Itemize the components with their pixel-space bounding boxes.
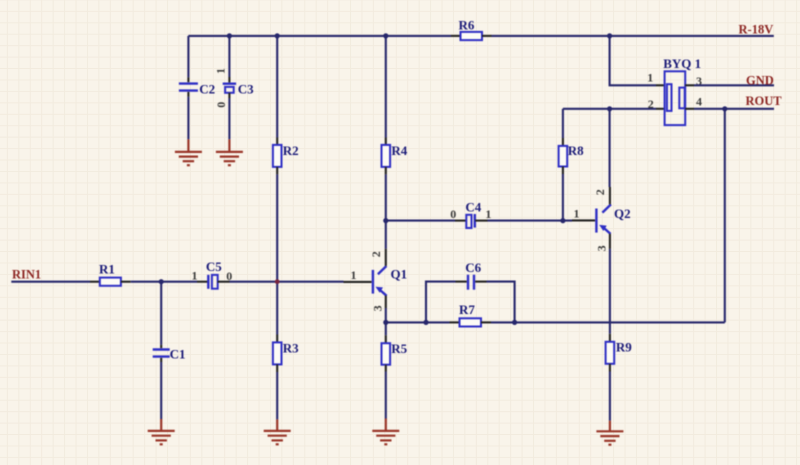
resistor R8 bbox=[559, 138, 584, 174]
node on rail at R2 bbox=[275, 33, 280, 38]
ground under R3 bbox=[264, 419, 291, 444]
wire GND net bbox=[694, 84, 774, 86]
svg-text:2: 2 bbox=[593, 189, 607, 195]
ground under R5 bbox=[372, 419, 399, 445]
svg-text:Q1: Q1 bbox=[391, 267, 408, 282]
capacitor C4 (polarized) bbox=[450, 199, 491, 228]
wire pin2 row bbox=[563, 108, 656, 110]
svg-text:R4: R4 bbox=[391, 143, 407, 158]
transistor Q2 bbox=[572, 187, 631, 251]
transistor Q1 bbox=[344, 249, 408, 312]
capacitor C6 bbox=[456, 260, 487, 290]
wire R8 to C4 row bbox=[562, 174, 564, 221]
wire R3 to ground bbox=[276, 372, 278, 419]
wire C4 to Q2 base bbox=[488, 220, 573, 222]
svg-text:C1: C1 bbox=[170, 347, 186, 362]
node C6 right bbox=[512, 320, 517, 325]
svg-text:2: 2 bbox=[369, 251, 383, 257]
wire Q2 collector up bbox=[609, 109, 611, 187]
wire R2/R3 mid bbox=[276, 282, 278, 335]
svg-text:0: 0 bbox=[214, 102, 228, 108]
wire top rail left of R6 bbox=[188, 35, 451, 37]
svg-text:C4: C4 bbox=[465, 199, 481, 214]
capacitor C2 bbox=[179, 77, 215, 96]
wire C2 drop bbox=[187, 36, 189, 78]
resistor R4 bbox=[382, 138, 408, 175]
svg-text:2: 2 bbox=[648, 97, 654, 111]
wire R2 to input line bbox=[276, 174, 278, 281]
node on rail at BYQ drop bbox=[607, 33, 612, 38]
svg-text:R8: R8 bbox=[568, 143, 584, 158]
node ROUT tap bbox=[722, 106, 727, 111]
wire R1 to C5 bbox=[131, 281, 197, 283]
wire C3 to ground bbox=[228, 98, 230, 139]
wire R9 to ground bbox=[609, 372, 611, 421]
wire Q2 emitter to R9 bbox=[609, 249, 611, 334]
svg-text:R-18V: R-18V bbox=[739, 23, 774, 37]
svg-text:4: 4 bbox=[696, 94, 702, 108]
svg-text:RIN1: RIN1 bbox=[12, 268, 41, 282]
svg-text:1: 1 bbox=[574, 207, 580, 221]
wire R7 to right riser bbox=[491, 321, 725, 323]
svg-text:ROUT: ROUT bbox=[746, 94, 783, 108]
wire R5 node to R7 bbox=[386, 321, 450, 323]
svg-text:1: 1 bbox=[647, 70, 653, 84]
resistor R5 bbox=[382, 335, 408, 371]
svg-text:GND: GND bbox=[746, 74, 774, 88]
wire R5 node down bbox=[385, 322, 387, 335]
ground under C1 bbox=[148, 419, 175, 444]
svg-text:1: 1 bbox=[351, 268, 357, 282]
wire C6 left branch bbox=[426, 282, 456, 323]
wire R8 top corner bbox=[562, 109, 564, 138]
node R2/R3 cross junction bbox=[275, 279, 280, 284]
capacitor C3 (polarized) bbox=[213, 68, 254, 108]
svg-text:R5: R5 bbox=[391, 341, 407, 356]
node BYQ pin2 tap bbox=[607, 106, 612, 111]
wire C4 node to C4 bbox=[386, 220, 455, 222]
svg-text:R6: R6 bbox=[459, 18, 475, 33]
wire C2 to ground bbox=[187, 97, 189, 140]
svg-text:C3: C3 bbox=[238, 82, 254, 97]
svg-text:R1: R1 bbox=[99, 261, 115, 276]
resistor R3 bbox=[273, 335, 299, 373]
svg-text:1: 1 bbox=[213, 68, 227, 74]
node C6 left bbox=[423, 320, 428, 325]
wire rail to R2 bbox=[276, 36, 278, 138]
wire input RIN1 to R1 bbox=[11, 281, 90, 283]
wire ROUT net bbox=[694, 108, 774, 110]
node R8/Q2 base bbox=[560, 218, 565, 223]
wire rail to R4 bbox=[385, 36, 387, 138]
svg-text:C2: C2 bbox=[199, 82, 215, 97]
wire R5 to ground bbox=[385, 372, 387, 419]
resistor R1 bbox=[90, 261, 131, 286]
ground under R9 bbox=[596, 421, 623, 445]
svg-text:Q2: Q2 bbox=[614, 206, 631, 221]
svg-text:1: 1 bbox=[192, 268, 198, 282]
node on rail at C3 bbox=[227, 33, 232, 38]
svg-text:C6: C6 bbox=[465, 260, 481, 275]
capacitor C1 bbox=[153, 345, 186, 362]
svg-text:3: 3 bbox=[595, 245, 609, 251]
svg-text:R2: R2 bbox=[283, 143, 299, 158]
svg-text:BYQ 1: BYQ 1 bbox=[663, 56, 701, 71]
wire C3 drop bbox=[228, 36, 230, 77]
wire BYQ drop from rail bbox=[610, 36, 656, 85]
svg-text:R9: R9 bbox=[616, 340, 632, 355]
wire C1 tap down bbox=[160, 282, 162, 345]
resistor R9 bbox=[606, 334, 633, 372]
svg-text:R7: R7 bbox=[459, 302, 475, 317]
wire C6 right branch bbox=[487, 282, 515, 323]
svg-text:3: 3 bbox=[371, 305, 385, 311]
node on rail at R4 bbox=[383, 33, 388, 38]
wire C4 node down to Q1 collector bbox=[385, 221, 387, 249]
svg-text:0: 0 bbox=[450, 207, 456, 221]
resistor R7 bbox=[450, 302, 492, 327]
wire Q1 emitter to R5 node bbox=[385, 308, 387, 322]
wire C5 to Q1 base bbox=[230, 281, 344, 283]
node C1 tap bbox=[159, 279, 164, 284]
node Q1 emitter bbox=[383, 320, 388, 325]
resistor R6 bbox=[451, 18, 492, 41]
connector BYQ 1 bbox=[647, 56, 702, 125]
wire C1 to ground bbox=[160, 362, 162, 419]
capacitor C5 (polarized) bbox=[192, 259, 233, 289]
node R4/C4 bbox=[383, 218, 388, 223]
wire right riser bbox=[724, 109, 726, 323]
wire R4 to C4 node bbox=[385, 174, 387, 220]
svg-text:R3: R3 bbox=[283, 341, 299, 356]
svg-text:1: 1 bbox=[485, 207, 491, 221]
ground under C2 bbox=[175, 139, 202, 165]
svg-text:C5: C5 bbox=[206, 259, 222, 274]
ground under C3 bbox=[216, 139, 243, 165]
resistor R2 bbox=[273, 138, 299, 175]
wire top rail right of R6 bbox=[492, 35, 774, 37]
